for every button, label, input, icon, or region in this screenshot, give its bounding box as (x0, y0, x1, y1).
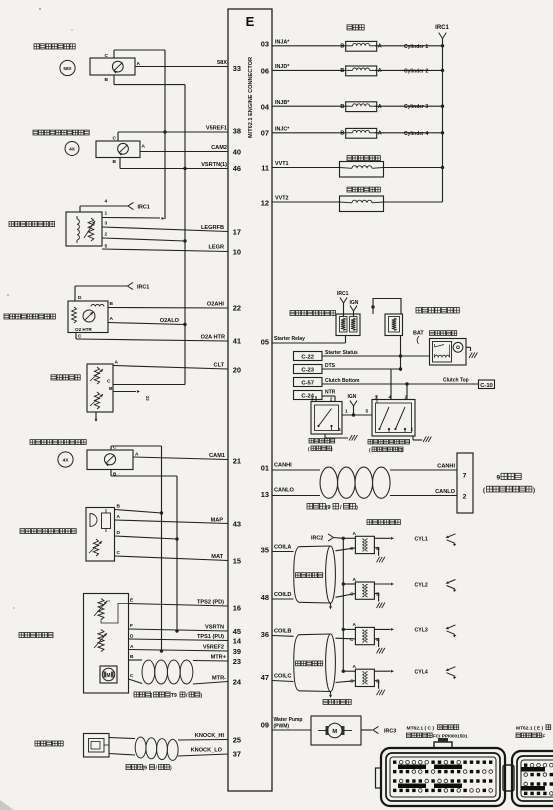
svg-text:CYL3: CYL3 (415, 628, 428, 634)
svg-text:V5REF1: V5REF1 (206, 126, 227, 132)
connector C-22 (294, 352, 323, 361)
throttle pot 1 (94, 599, 110, 620)
wire VVT2 valve to IRC1 rail (383, 201, 443, 203)
label 9-pin serial port (483, 473, 535, 494)
svg-text:(9: (9 (326, 505, 331, 511)
junction V5REF1 (163, 130, 166, 133)
label start interlock relay (290, 311, 336, 316)
wire COILA pin 35 to coil 1 C (272, 545, 355, 552)
svg-text:CAM2: CAM2 (211, 145, 227, 151)
intake temp pressure sensor body (86, 508, 115, 562)
wire coil 4 A feed (342, 670, 356, 673)
ignition coil 2 (350, 577, 380, 600)
svg-text:BAT: BAT (413, 331, 424, 337)
svg-text:CYL4: CYL4 (415, 670, 428, 676)
svg-text:1: 1 (345, 409, 348, 415)
svg-text:COILA: COILA (274, 545, 291, 551)
svg-text:06: 06 (261, 67, 269, 76)
shielded twin-core cable COILB/COILC shield ground (329, 692, 332, 699)
svg-text:IGN: IGN (348, 394, 357, 400)
svg-text:35: 35 (261, 546, 269, 555)
wire DTS to clutch switch pin 4 (390, 369, 392, 400)
svg-text:DTS: DTS (325, 363, 336, 369)
svg-text:39: 39 (233, 647, 241, 656)
svg-text:Clutch Bottom: Clutch Bottom (325, 378, 360, 384)
svg-text:CANLO: CANLO (274, 488, 295, 494)
pin C crank sensor (105, 50, 114, 59)
svg-text:M: M (332, 729, 337, 735)
ECU connector C drawing (376, 738, 506, 806)
svg-text:16: 16 (233, 604, 241, 613)
throttle pot link wire (101, 604, 129, 624)
pin numbers right side of connector E (261, 40, 270, 730)
wire CANHI from pin 01 (272, 463, 320, 471)
svg-text:A: A (353, 622, 357, 628)
wire coil 2 A feed (342, 582, 356, 585)
svg-text:22: 22 (233, 304, 241, 313)
IRC2 power arrow (311, 534, 343, 542)
svg-text:VSRTN(1): VSRTN(1) (201, 162, 227, 168)
label exhaust VVT valve (347, 187, 380, 192)
rail IRC1 injectors (442, 46, 444, 202)
injector 4 coil (340, 128, 381, 138)
wire INJA* from pin to injector 1 (272, 40, 346, 46)
pin B crank sensor (105, 75, 114, 85)
wire Clutch Bottom to clutch switch pin 2 (406, 384, 408, 400)
rail VSRTN lower (176, 476, 178, 631)
wire injector 1 to IRC1 rail (375, 44, 444, 50)
svg-text:Cylinder 2: Cylinder 2 (404, 68, 428, 74)
svg-text:23: 23 (233, 657, 241, 666)
drive status relay K2 (385, 314, 403, 336)
svg-text:A: A (110, 316, 114, 322)
wire coil 1 A feed (343, 537, 355, 539)
svg-text:INJD*: INJD* (275, 64, 290, 70)
svg-text:IGN: IGN (350, 300, 359, 306)
clutch switch pins (375, 395, 408, 401)
svg-text:15: 15 (233, 557, 241, 566)
ignition coil 1 (350, 531, 380, 554)
start interlock relay K1 (336, 314, 360, 336)
rail coil A trunk (342, 537, 345, 672)
label starter assembly (430, 331, 457, 336)
svg-text:C-10: C-10 (480, 383, 493, 389)
svg-text:A: A (117, 514, 121, 520)
svg-text:: FCI PPI0001501: : FCI PPI0001501 (430, 734, 468, 739)
wire INJC* from pin to injector 4 (272, 127, 346, 133)
svg-text:IRC1: IRC1 (435, 25, 449, 31)
svg-text:37: 37 (233, 750, 241, 759)
wire CANHI to serial port pin 7 (390, 464, 457, 471)
svg-text:A: A (378, 44, 382, 50)
ECU connector E (MT62.1 engine connector) body (228, 9, 272, 791)
svg-text:2: 2 (105, 232, 108, 238)
pin D O2 sensor (78, 295, 82, 301)
junction VSRTN(1) (183, 167, 186, 170)
svg-text:A: A (353, 664, 357, 670)
pin A O2 wire O2ALO to VSRTN rail (108, 316, 187, 326)
svg-text:M: M (106, 673, 110, 679)
svg-text:4X: 4X (69, 147, 76, 153)
wire NTR to neutral switch (316, 390, 336, 402)
pin A throttle wire V5REF2 to pin 39 (129, 644, 229, 653)
svg-text:MT62.1 ( E ): MT62.1 ( E ) (516, 726, 544, 732)
neutral switch pins (311, 397, 333, 403)
svg-text:COILB: COILB (274, 629, 291, 635)
linear EGR valve body (66, 212, 102, 246)
CLT bottom ground arrow (95, 412, 98, 422)
svg-text:C: C (107, 379, 111, 385)
pin E throttle wire TPS2 (PD) to pin 16 (129, 598, 229, 607)
svg-text:41: 41 (233, 337, 241, 346)
svg-text:43: 43 (233, 520, 241, 529)
svg-text:07: 07 (261, 129, 269, 138)
pin C throttle wire MTR- to pin 24 (129, 673, 229, 684)
injector 1 coil (340, 41, 381, 51)
wire intake cam B to rail2 (111, 475, 177, 477)
connector coupling bridge (503, 765, 514, 791)
wire KNOCK_HI to pin 25 (178, 733, 228, 740)
wire coil 1 spark output CYL1 (374, 537, 427, 543)
ignition coil 4 (350, 664, 380, 687)
svg-text:MTR-: MTR- (212, 676, 226, 682)
svg-text:COILC: COILC (274, 674, 291, 680)
IGN arrow at clutch switch (348, 394, 358, 415)
pin A MAP wire to pin 43 (115, 514, 229, 524)
wire Starter Relay pin 05 (272, 336, 346, 344)
label knock sensor (35, 741, 63, 746)
wire relay K2 to K1 link (371, 299, 401, 315)
svg-text:E: E (246, 14, 255, 29)
svg-text:58X: 58X (217, 60, 227, 66)
svg-text:14: 14 (233, 637, 242, 646)
pin B exhaust cam (113, 158, 120, 169)
svg-text:17: 17 (233, 228, 241, 237)
pin numbers left side of connector E (233, 64, 242, 759)
svg-text:MT62.1 ( C ): MT62.1 ( C ) (407, 726, 435, 732)
svg-text:1: 1 (411, 427, 414, 433)
svg-text:C-57: C-57 (301, 381, 314, 387)
wire intake cam C to rail1 (111, 445, 162, 447)
wire knock to twisted pair low (109, 754, 135, 756)
svg-text:A: A (142, 144, 146, 150)
svg-text:B: B (340, 44, 344, 50)
svg-text:B: B (340, 104, 344, 110)
pin C intake cam (111, 445, 117, 451)
svg-text:INJA*: INJA* (275, 40, 290, 46)
svg-text:A: A (378, 131, 382, 137)
IGN arrow at starter relay (350, 300, 359, 317)
wire coil 2 B to ground (374, 594, 385, 609)
pin B CLT wire to arrow (109, 386, 150, 401)
wire coil 3 spark output CYL3 (374, 628, 427, 634)
svg-text:M/T62.1 ENGINE CONNECTOR: M/T62.1 ENGINE CONNECTOR (248, 57, 254, 138)
scan specks (0, 8, 73, 810)
EGR pin 2 wire to VSRTN rail (102, 232, 187, 243)
svg-text:C: C (117, 550, 121, 556)
wire 58X to pin 33 (135, 60, 228, 67)
svg-text:MAT: MAT (211, 554, 223, 560)
wire switch link 1-5 (342, 409, 372, 417)
wire CANLO from pin 13 (272, 488, 320, 496)
pin B O2 wire O2AHI to pin 22 (108, 301, 228, 308)
label switched water pump (323, 700, 351, 705)
svg-text:58X: 58X (63, 66, 72, 71)
wire VSRTN(1) to pin 46 (120, 162, 228, 169)
wire clutch switch pin 1 to ground (411, 427, 432, 443)
svg-text:05: 05 (261, 338, 269, 347)
svg-text:INJC*: INJC* (275, 127, 290, 133)
shielded twin-core cable COILA/COILD (294, 546, 336, 603)
svg-text:09: 09 (261, 721, 269, 730)
svg-text:4: 4 (105, 199, 108, 205)
label intake temp/pressure sensor (20, 529, 76, 534)
svg-text:B: B (340, 131, 344, 137)
svg-text:C-23: C-23 (301, 368, 314, 374)
label coolant temp sensor (51, 375, 80, 380)
svg-text:A: A (378, 104, 382, 110)
caption twisted pair min 9 turns/ft (134, 692, 203, 699)
svg-text:36: 36 (261, 630, 269, 639)
connector C-24 (294, 391, 323, 400)
svg-text:C-22: C-22 (301, 355, 314, 361)
wire VVT1 valve to IRC1 rail (383, 166, 445, 169)
intake cam 4X circle (58, 452, 73, 467)
wire COILD pin 48 to coil 2 C (272, 592, 355, 599)
pin C CLT wire to VSRTN rail (107, 379, 185, 385)
svg-text:47: 47 (261, 673, 269, 682)
svg-text:O2ALO: O2ALO (160, 318, 180, 324)
svg-text:Starter Relay: Starter Relay (274, 336, 305, 342)
svg-text:COILD: COILD (274, 592, 291, 598)
svg-text:F: F (130, 623, 133, 629)
IRC1 power arrow top (435, 25, 449, 46)
wire V5REF1 to pin 38 (118, 126, 228, 133)
svg-text:20: 20 (233, 366, 241, 375)
label MT62.1 (E) connector (516, 725, 551, 739)
wire coil 4 spark output CYL4 (374, 670, 427, 676)
svg-text:A: A (115, 360, 119, 366)
throttle pot 2 (94, 630, 107, 652)
svg-text:10: 10 (233, 248, 241, 257)
svg-text:): ) (356, 505, 358, 511)
injector 2 coil (340, 66, 381, 76)
svg-text:CANLO: CANLO (435, 489, 456, 495)
wire VVT2 from pin 12 (272, 196, 339, 203)
shielded twin-core cable COILB/COILC (294, 634, 336, 692)
label Clutch Top (443, 378, 469, 384)
connector C-10 (479, 380, 495, 389)
svg-text:Water Pump: Water Pump (274, 717, 303, 723)
wire neutral switch pin 4 to ground (325, 427, 357, 441)
svg-text:22: 22 (145, 396, 150, 401)
wire crank B to VSRTN rail (114, 84, 185, 86)
pin B throttle wire MTR+ to pin 23 (129, 654, 229, 661)
svg-text:2: 2 (463, 494, 467, 501)
pin A exhaust cam (142, 144, 146, 150)
9-pin serial connector (457, 453, 473, 513)
svg-text:CYL2: CYL2 (415, 582, 428, 588)
label MT62.1 (C) ECU connector (407, 725, 468, 739)
svg-text:9: 9 (497, 475, 501, 482)
svg-text:TPS2 (PD): TPS2 (PD) (197, 600, 224, 606)
rail V5REF lower (161, 446, 163, 651)
svg-text:O2 HTR: O2 HTR (75, 327, 93, 332)
svg-text:Cylinder 1: Cylinder 1 (404, 44, 428, 50)
wire COILB pin 36 to coil 3 C (272, 629, 355, 639)
svg-text:KNOCK_LO: KNOCK_LO (191, 748, 223, 754)
intake cam position sensor body (87, 450, 133, 470)
pin D throttle wire TPS1 (PU) to pin 14 (129, 634, 229, 641)
svg-text:CLT: CLT (214, 363, 225, 369)
wire INJD* from pin to injector 2 (272, 64, 346, 70)
switched water pump (311, 716, 361, 745)
svg-text:45: 45 (233, 627, 241, 636)
wire COILC pin 47 to coil 4 C (272, 674, 355, 683)
label BAT (413, 331, 424, 345)
EGR pin 4 wire to IRC1 (80, 199, 128, 213)
svg-text:24: 24 (233, 678, 242, 687)
spark gap symbol CYL1 (446, 534, 457, 547)
IRC1 arrow at O2 sensor (128, 282, 150, 290)
pin A CLT wire to pin 20 (113, 360, 228, 370)
svg-text:O2AHI: O2AHI (207, 302, 225, 308)
wire Water Pump PWM pin 09 (272, 717, 311, 730)
wire coil 3 B to ground (374, 639, 385, 654)
svg-text:12: 12 (261, 199, 269, 208)
label clutch travel sensor (368, 440, 410, 453)
svg-text:B: B (105, 77, 109, 83)
svg-text:B: B (130, 654, 134, 660)
svg-text:B: B (110, 301, 114, 307)
svg-text:D: D (117, 530, 121, 536)
wire starter to ground (466, 347, 477, 358)
svg-text:B: B (340, 68, 344, 74)
exhaust cam position sensor body (96, 141, 140, 158)
label neutral sensor (308, 439, 335, 452)
svg-text:40: 40 (233, 148, 241, 157)
svg-text:IRC2: IRC2 (311, 536, 323, 542)
svg-text:38: 38 (233, 127, 241, 136)
svg-text:5: 5 (366, 409, 369, 415)
svg-text:C: C (105, 53, 109, 59)
svg-text:A: A (378, 68, 382, 74)
rail V5REF1 upper (164, 50, 166, 132)
label heated O2 sensor (4, 314, 55, 319)
svg-text:3: 3 (105, 221, 108, 227)
pin B MAP sensor wire to rail1 (115, 504, 164, 515)
twisted pair throttle motor wires (142, 660, 193, 684)
svg-text:48: 48 (261, 593, 269, 602)
svg-text:A: A (353, 531, 357, 537)
ignition coil 3 (350, 622, 380, 645)
svg-text:04: 04 (261, 103, 270, 112)
crank sensor 58X circle (60, 60, 75, 75)
exhaust VVT valve (340, 196, 384, 212)
svg-text:CYL1: CYL1 (415, 537, 428, 543)
svg-text:7: 7 (463, 473, 467, 480)
svg-text:C: C (113, 136, 117, 142)
rail VSRTN mid (184, 169, 186, 385)
svg-text:IRC1: IRC1 (137, 285, 149, 291)
svg-text:46: 46 (233, 164, 241, 173)
pin F throttle wire VSRTN to pin 45 (129, 623, 229, 633)
pin C exhaust cam (113, 132, 118, 142)
pin A intake cam wire CAM1 to pin 21 (133, 452, 228, 460)
wire injector 4 to IRC1 rail (375, 131, 444, 137)
EGR pin 5 wire LEGR to pin 10 (102, 244, 228, 252)
svg-text:IRC1: IRC1 (138, 205, 150, 211)
svg-text:13: 13 (261, 490, 269, 499)
wire injector 2 to IRC1 rail (375, 68, 444, 74)
pin B intake cam (111, 470, 117, 478)
spark gap symbol CYL4 (446, 667, 457, 680)
IRC1 arrow at starter relay (337, 291, 349, 317)
svg-text:VVT2: VVT2 (275, 196, 288, 202)
rail V5REF1 to EGR (164, 132, 166, 219)
wire INJB* from pin to injector 3 (272, 100, 346, 106)
label exhaust camshaft position sensor (33, 130, 89, 135)
label drive status relay (416, 308, 459, 314)
svg-text:C: C (350, 679, 354, 685)
wire water pump to IRC3 (361, 726, 396, 734)
svg-text:LEGRFB: LEGRFB (201, 225, 224, 231)
svg-text:KNOCK_HI: KNOCK_HI (195, 733, 225, 739)
wire DTS (322, 363, 402, 371)
svg-text:Cylinder 4: Cylinder 4 (404, 131, 428, 137)
svg-text:IRC3: IRC3 (384, 729, 396, 735)
svg-text:Starter Status: Starter Status (325, 350, 358, 356)
svg-text:(: ( (483, 488, 485, 494)
svg-text:NTR: NTR (325, 390, 336, 396)
svg-text:C: C (350, 637, 354, 643)
starter assembly box (430, 339, 467, 366)
svg-text:(PWM): (PWM) (274, 724, 290, 730)
svg-text:VSRTN: VSRTN (205, 625, 224, 631)
label pencil ignition coils (367, 520, 400, 525)
svg-text:25: 25 (233, 736, 241, 745)
wire injector 3 to IRC1 rail (375, 104, 444, 110)
svg-text:B: B (109, 386, 113, 392)
ECU connector E drawing (512, 751, 553, 806)
neutral position switch (311, 402, 342, 435)
spark gap symbol CYL2 (446, 580, 457, 593)
wire knock to twisted pair high (109, 738, 135, 739)
wire coil 4 B to ground (374, 681, 385, 696)
trunk relay K2 down (400, 336, 402, 372)
svg-text:LEGR: LEGR (208, 245, 224, 251)
svg-text:): ) (533, 488, 535, 494)
svg-text:C: C (113, 445, 117, 451)
svg-text:1: 1 (105, 211, 108, 217)
pin C O2 wire O2A HTR to pin 41 (76, 333, 228, 342)
svg-text:21: 21 (233, 457, 241, 466)
svg-text:A: A (353, 577, 357, 583)
wire coil 2 spark output CYL2 (374, 582, 427, 588)
wire CANLO to serial port pin 2 (390, 489, 457, 496)
svg-text:MTR+: MTR+ (211, 655, 227, 661)
svg-text:B: B (117, 504, 121, 510)
label intake VVT valve (347, 156, 380, 161)
svg-text:CANHI: CANHI (274, 463, 292, 469)
svg-text:CANHI: CANHI (437, 464, 455, 470)
svg-text:11: 11 (261, 164, 269, 173)
svg-text:B: B (113, 472, 117, 478)
label intake camshaft position sensor (30, 440, 86, 445)
svg-text:C: C (130, 673, 134, 679)
svg-text:(9: (9 (143, 766, 148, 772)
knock sensor body (84, 734, 110, 758)
